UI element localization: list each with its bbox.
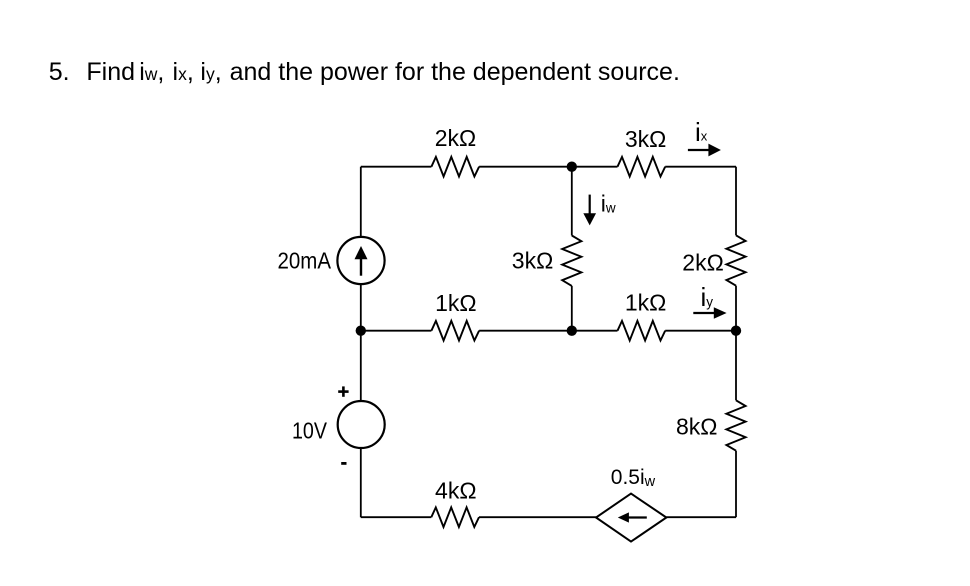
resistor R6 1kOhm (mid-right horizontal) [618,321,666,341]
svg-text:iw: iw [601,191,616,217]
wire middle vertical top (top rail to 3k resistor) [571,167,573,236]
node B (mid left junction) [356,326,366,336]
title: problem statement [49,58,680,86]
wire top-left segment [361,166,432,168]
wire mid-middle segment [479,330,617,332]
node C (mid middle junction) [567,326,577,336]
wire mid-left segment [361,330,432,332]
svg-text:10V: 10V [292,418,328,444]
resistor R1 2kOhm (top-left horizontal) [431,157,479,177]
svg-text:iw,: iw, [139,58,164,86]
wire left vertical bottom (voltage source to bottom rail) [360,448,362,517]
current arrow ix [688,117,721,156]
node D (mid right junction) [731,326,741,336]
wire left vertical middle (current source to mid rail) [360,284,362,331]
svg-text:20mA: 20mA [278,248,332,274]
resistor R8 8kOhm (bottom right vertical) [726,400,745,450]
svg-text:1kΩ: 1kΩ [625,290,667,316]
wire left vertical (mid rail to voltage source) [360,331,362,401]
resistor R4 2kOhm (right vertical) [726,235,745,285]
svg-text:3kΩ: 3kΩ [512,247,554,273]
wire middle vertical bottom (3k resistor to mid rail) [571,286,573,331]
wire bottom-middle segment [479,516,596,518]
svg-text:2kΩ: 2kΩ [682,250,724,276]
wire top-middle segment [479,166,617,168]
resistor R7 4kOhm (bottom horizontal) [431,507,479,527]
wire mid-right segment [665,330,736,332]
wire right vertical top (top rail to 2k resistor) [735,167,737,236]
resistor R3 3kOhm (middle vertical) [562,236,581,286]
svg-text:4kΩ: 4kΩ [435,477,477,503]
svg-text:1kΩ: 1kΩ [435,290,477,316]
svg-text:8kΩ: 8kΩ [676,414,718,440]
dependent current source 0.5iw (diamond with left arrow) [596,494,666,542]
wire top-right segment [665,166,736,168]
wire right vertical (2k resistor to mid rail) [735,286,737,331]
current source I1 20mA (circle with up arrow) [337,237,384,284]
svg-text:and the power for the dependen: and the power for the dependent source. [230,58,680,86]
wire left vertical top (top rail to current source) [360,167,362,237]
svg-text:5.: 5. [49,58,70,86]
wire bottom-right segment [666,516,736,518]
svg-text:Find: Find [86,58,135,86]
svg-text:2kΩ: 2kΩ [435,125,477,151]
svg-text:ix,: ix, [173,58,194,86]
wire bottom-left segment [361,516,432,518]
voltage source V1 10V (circle) [338,401,385,448]
current arrow iw [583,191,616,226]
node A (top middle junction) [567,162,577,172]
minus sign of voltage source [341,462,346,465]
resistor R5 1kOhm (mid-left horizontal) [431,321,479,341]
svg-text:iy: iy [701,282,714,312]
wire right vertical bottom (8k resistor to bottom rail) [735,451,737,518]
svg-text:ix: ix [695,117,708,147]
plus sign of voltage source [338,386,348,396]
wire right vertical (mid rail to 8k resistor) [735,331,737,401]
current arrow iy [693,282,726,319]
resistor R2 3kOhm (top-right horizontal) [618,157,666,177]
svg-text:3kΩ: 3kΩ [625,126,667,152]
svg-text:0.5iw: 0.5iw [611,466,656,490]
svg-text:iy,: iy, [200,58,221,86]
